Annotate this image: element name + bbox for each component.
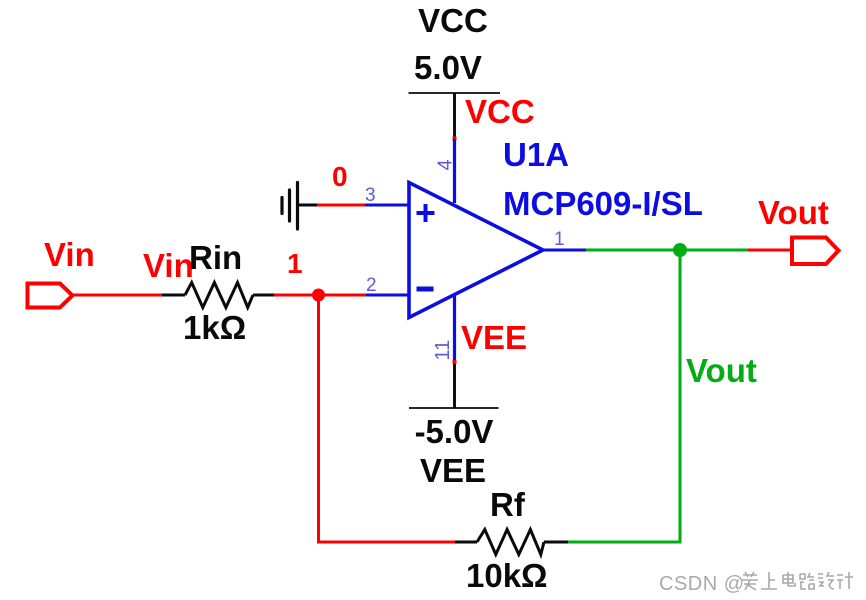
port Vout (792, 238, 839, 265)
svg-text:Rin: Rin (189, 239, 242, 276)
svg-text:Vin: Vin (143, 247, 194, 284)
svg-text:1kΩ: 1kΩ (183, 309, 246, 346)
svg-text:3: 3 (365, 185, 376, 206)
svg-text:1: 1 (554, 229, 565, 250)
wire feedback vertical (green) (679, 250, 682, 544)
node VCC junction (453, 137, 457, 141)
resistor Rf (455, 530, 568, 555)
wire ground stub (298, 204, 319, 207)
svg-text:VEE: VEE (420, 452, 486, 489)
svg-text:MCP609-I/SL: MCP609-I/SL (503, 185, 703, 222)
svg-text:1: 1 (287, 248, 303, 279)
op-amp minus input marking (417, 287, 434, 292)
wire Vin port to Rin (red) (73, 294, 164, 297)
svg-text:11: 11 (432, 340, 454, 361)
wire bottom feedback left (red) (317, 541, 455, 544)
svg-text:Vout: Vout (686, 352, 757, 389)
watermark CSDN (659, 573, 745, 595)
resistor Rin (162, 283, 274, 308)
svg-text:2: 2 (366, 275, 377, 296)
wire net 0 (red) (317, 204, 365, 207)
svg-text:VEE: VEE (461, 319, 527, 356)
op-amp pin 2 wire (blue stub) (365, 294, 410, 297)
power rail VCC bar (409, 92, 501, 94)
svg-text:Rf: Rf (490, 486, 526, 523)
op-amp U1A triangle (409, 183, 543, 318)
wire Rf to output (green) (568, 541, 682, 544)
svg-text:CSDN @: CSDN @ (659, 573, 745, 595)
svg-text:VCC: VCC (418, 2, 488, 39)
node output junction dot (673, 243, 687, 257)
port Vin (28, 284, 73, 308)
wire Rin to node 1 and pin 2 (red) (274, 294, 366, 297)
wire node 1 down (red) (317, 295, 320, 544)
node VEE junction (453, 360, 457, 364)
svg-text:5.0V: 5.0V (414, 49, 482, 86)
wire to Vout port (red) (748, 249, 792, 252)
node 1 junction dot (312, 289, 325, 302)
op-amp plus input marking (417, 204, 435, 222)
op-amp pin 11 wire (blue stub) (453, 296, 456, 362)
svg-text:-5.0V: -5.0V (415, 413, 494, 450)
watermark CJK glyphs (742, 572, 853, 590)
svg-text:4: 4 (435, 159, 457, 170)
ground symbol (282, 183, 298, 230)
svg-text:VCC: VCC (465, 93, 535, 130)
svg-text:Vin: Vin (44, 236, 95, 273)
op-amp U1A pin 4 wire (453, 139, 456, 203)
op-amp pin 11 to VEE black wire (453, 362, 456, 408)
op-amp pin 3 wire (blue stub) (365, 204, 410, 207)
wire VCC rail to pin 4 (453, 93, 456, 139)
svg-text:10kΩ: 10kΩ (466, 557, 548, 594)
svg-text:0: 0 (332, 161, 348, 192)
svg-text:Vout: Vout (758, 194, 829, 231)
power rail VEE bar (409, 407, 499, 409)
wire output (green) (586, 249, 748, 252)
op-amp pin 1 wire (blue stub) (543, 249, 588, 252)
svg-text:U1A: U1A (503, 136, 569, 173)
